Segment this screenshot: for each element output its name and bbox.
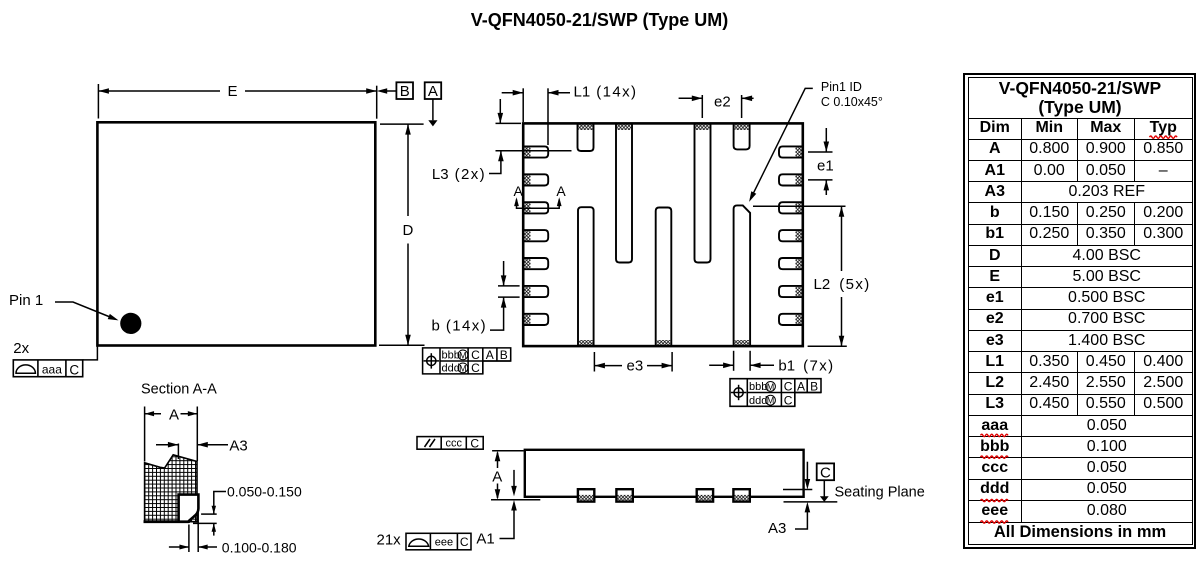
svg-text:b(14x): b(14x) [431,318,487,335]
svg-text:Seating Plane: Seating Plane [835,484,925,500]
datum B flag [396,82,413,99]
dimension A3 (section) [156,444,178,446]
bottom edge extension line for D [379,344,425,346]
datum A leader and triangle [432,99,434,120]
section cut A-A [517,200,560,209]
svg-text:A: A [428,83,438,100]
svg-text:A: A [556,183,566,199]
dimension e1 extension ticks [808,152,833,180]
side pad R2 [779,174,803,185]
dimension table [963,73,1196,549]
bottom long pad B3 with pin1 chamfer [734,205,751,346]
svg-text:A: A [514,183,524,199]
profile frame (eee C) [406,533,471,550]
dimension b extension ticks [498,286,520,297]
svg-text:M: M [767,396,775,406]
svg-text:2x: 2x [13,340,29,357]
0.050-0.150 tick and extension [193,514,217,523]
datum A flag [425,82,442,99]
side pad R6 [779,286,803,297]
side pad L6 [523,286,548,297]
dimension E [98,90,376,92]
svg-text:Section A-A: Section A-A [141,382,217,398]
svg-text:ddd: ddd [749,395,767,407]
profile of surface symbol [409,539,429,546]
svg-text:C: C [820,465,831,482]
svg-text:e3: e3 [627,358,644,375]
seating plane line [784,501,838,503]
dimension L2 extension lines [753,206,847,346]
section pad metal [179,495,199,522]
side view pad 1 [578,489,594,501]
dimension L3 [499,99,501,123]
side pad R7 [779,314,803,325]
spellcheck squiggle bbb [981,456,1009,458]
dimension A1 (side) [513,470,515,490]
dimension A (side) extension lines [491,451,540,500]
parallelism frame (ccc C) [417,437,483,450]
svg-text:C: C [470,436,479,450]
svg-text:B: B [500,348,508,362]
dimension L2 [841,206,843,346]
svg-text:B: B [810,380,818,394]
dimension L1 extension lines [523,88,548,145]
dimension A (section) extension lines [145,407,198,462]
svg-text:Pin1 ID: Pin1 ID [821,80,862,94]
svg-text:A3: A3 [768,520,786,537]
dimension D [407,124,409,345]
bottom long pad B1 [578,207,594,346]
svg-text:0.050-0.150: 0.050-0.150 [227,483,302,499]
dimension e2 extension lines [702,95,741,118]
side pad L4 [523,230,548,241]
top short pad T4 [734,123,750,149]
svg-text:bbb: bbb [442,350,460,362]
svg-text:M: M [459,350,467,360]
svg-text:D: D [403,222,414,239]
spellcheck squiggle Typ [1150,136,1178,138]
svg-text:A: A [169,407,179,424]
profile-of-surface frame (aaa C) [13,360,82,377]
dimension A3 (side) [806,462,808,483]
svg-text:A3: A3 [229,438,247,455]
dimension b1 extension lines [734,351,751,371]
svg-text:ccc: ccc [445,438,462,450]
side view pad 3 [697,489,713,501]
side pad L7 [523,314,548,325]
package body side view [525,450,804,497]
svg-text:aaa: aaa [42,362,62,376]
side pad L3 [523,202,548,213]
svg-text:A: A [492,469,502,486]
svg-text:Pin 1: Pin 1 [9,292,43,309]
svg-text:ddd: ddd [442,363,460,375]
position tolerance frame (right, bbb/ddd) [730,379,821,407]
Pin1 ID leader [751,88,813,199]
datum C flag [817,463,834,480]
section bottom thick edge [144,520,190,523]
dimension L1 [502,92,524,94]
package body top view outline [97,122,375,345]
top edge extension line (right of top view) [380,123,424,125]
top long pad T2 [616,123,632,262]
spellcheck squiggle aaa [981,434,1009,436]
pin 1 marker dot [120,313,141,334]
svg-text:C: C [471,361,480,375]
section body hatched [145,455,197,522]
side pad R4 [779,230,803,241]
svg-text:e2: e2 [714,94,731,111]
side view pad 4 [733,489,749,501]
dimension e3 extension lines [594,352,672,372]
Pin 1 leader [55,302,115,319]
dimension L3 extension lines [496,123,572,150]
pad top extension line [783,489,812,491]
svg-text:A1: A1 [476,531,494,548]
dimension E extension lines [98,84,376,119]
0.100-0.180 dimension [169,546,189,548]
svg-text:C: C [460,535,469,549]
svg-text:L3(2x): L3(2x) [432,166,486,183]
svg-text:eee: eee [435,536,453,548]
dimension A (side) [497,453,499,469]
side pad R5 [779,258,803,269]
svg-text:bbb: bbb [749,381,767,393]
dimension e2 [679,97,703,99]
svg-text:C: C [471,348,480,362]
side pad L2 [523,174,548,185]
side view pad 2 [616,489,632,501]
svg-text:L2(5x): L2(5x) [814,276,871,293]
svg-text:e1: e1 [817,158,834,175]
svg-text:C: C [784,394,793,408]
bottom long pad B2 [656,208,672,347]
dimension b [503,261,505,286]
dimension e3 [594,365,672,367]
dimension b1 [709,364,733,366]
0.100-0.180 extension lines [189,511,198,552]
spellcheck squiggle ddd [981,499,1009,501]
datum B leader arrow [381,90,396,92]
side pad L1 [523,146,548,157]
svg-text:E: E [228,83,238,100]
svg-text:C 0.10x45°: C 0.10x45° [821,95,883,109]
svg-text:M: M [767,382,775,392]
svg-text:b1(7x): b1(7x) [778,357,834,374]
top long pad T3 [695,123,711,262]
drawing title [0,10,1199,31]
svg-text:L1(14x): L1(14x) [574,84,638,101]
package body bottom view outline [523,123,803,346]
position symbol [424,353,439,368]
top short pad T1 [578,123,594,151]
position symbol [731,385,746,400]
svg-text:M: M [459,363,467,373]
svg-text:21x: 21x [377,531,402,548]
svg-text:C: C [784,380,793,394]
dimension A (section) [145,413,198,415]
svg-text:A: A [486,348,494,362]
dimension e1 [825,128,827,152]
svg-text:0.100-0.180: 0.100-0.180 [222,540,297,556]
svg-text:B: B [400,83,410,100]
bottom-left corner step to aaa frame [83,346,98,360]
side pad R3 [779,202,803,213]
0.050-0.150 dimension [214,492,226,515]
position tolerance frame (left, bbb/ddd) [423,348,511,374]
dimension A3 (section) extension line [177,444,179,460]
side pad R1 [779,146,803,157]
svg-text:A: A [797,380,805,394]
datum C leader and triangle [823,480,825,496]
profile of surface symbol [16,365,35,373]
spellcheck squiggle eee [981,521,1009,523]
parallelism symbol [425,439,436,447]
svg-text:C: C [69,362,79,377]
side pad L5 [523,258,548,269]
